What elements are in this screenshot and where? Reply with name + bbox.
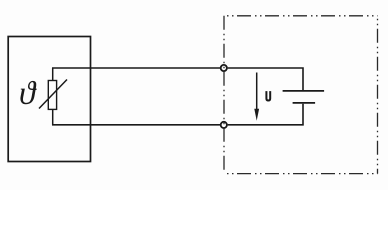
- battery cell positive plate: [283, 90, 325, 92]
- thermistor bottom lead: [52, 109, 54, 124]
- wire bottom right: [228, 104, 303, 125]
- sensor enclosure box: [8, 37, 90, 162]
- battery cell negative plate: [293, 102, 316, 104]
- wire top right: [228, 68, 303, 90]
- terminal node bottom: [221, 122, 227, 128]
- wire top: [52, 67, 220, 69]
- label u: [266, 91, 270, 100]
- thermistor top lead: [52, 68, 54, 81]
- wire bottom: [52, 124, 220, 126]
- terminal node top: [221, 65, 227, 71]
- thermistor body: [48, 81, 56, 110]
- label theta: [20, 81, 36, 104]
- boundary dash-dot box: [224, 16, 378, 174]
- voltage arrow u: [254, 73, 259, 121]
- thermistor diagonal stroke: [39, 80, 67, 109]
